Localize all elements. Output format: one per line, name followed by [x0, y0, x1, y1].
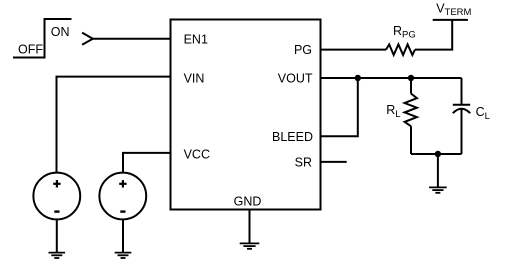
resistor R_PG	[386, 44, 415, 55]
terminal bar V_TERM	[433, 19, 468, 21]
wire VIN	[57, 77, 171, 173]
voltage source V1	[33, 173, 80, 220]
resistor R_L	[405, 94, 417, 127]
svg-text:BLEED: BLEED	[272, 130, 313, 144]
wire PG	[321, 49, 387, 51]
svg-text:PG: PG	[294, 43, 312, 57]
wire corner to C_L	[461, 78, 463, 105]
wire V2 to ground	[122, 219, 124, 252]
plus sign V1	[53, 180, 60, 187]
wire VOUT to R_L	[410, 78, 412, 94]
wire V1 to ground	[56, 219, 58, 252]
wire load bottom	[411, 153, 462, 155]
ground under V1	[49, 253, 66, 258]
minus sign V1	[54, 210, 59, 212]
wire load to ground	[437, 154, 439, 187]
plus sign V2	[119, 180, 126, 187]
arrow into EN1	[82, 33, 93, 45]
svg-text:VIN: VIN	[184, 72, 205, 86]
capacitor C_L top plate	[453, 104, 470, 106]
svg-text:VCC: VCC	[184, 148, 210, 162]
wire GND pin	[249, 210, 251, 244]
ground under GND pin	[240, 243, 260, 248]
wire C_L bottom	[461, 109, 463, 154]
op-amp U1 IC body	[171, 20, 321, 210]
wire VOUT	[321, 77, 462, 79]
junction dot VOUT/R_L	[408, 75, 414, 81]
junction dot VOUT/BLEED	[355, 75, 361, 81]
svg-text:GND: GND	[234, 195, 262, 209]
wire R_PG to V_TERM	[415, 20, 452, 50]
minus sign V2	[120, 210, 125, 212]
ground under load	[429, 187, 447, 192]
wire VCC	[123, 153, 171, 173]
voltage source V2	[99, 173, 146, 220]
wire R_L bottom	[410, 126, 412, 154]
svg-text:ON: ON	[51, 25, 70, 39]
wire SR stub	[321, 161, 347, 163]
ground under V2	[115, 253, 132, 258]
wire EN1	[93, 38, 171, 40]
capacitor C_L curved plate	[453, 109, 470, 114]
step waveform OFF/ON enable signal	[13, 19, 72, 58]
svg-text:SR: SR	[295, 156, 312, 170]
svg-text:EN1: EN1	[184, 32, 208, 46]
wire BLEED	[321, 78, 358, 136]
junction dot load/ground	[435, 151, 441, 157]
svg-text:OFF: OFF	[18, 43, 43, 57]
svg-text:VOUT: VOUT	[278, 72, 313, 86]
